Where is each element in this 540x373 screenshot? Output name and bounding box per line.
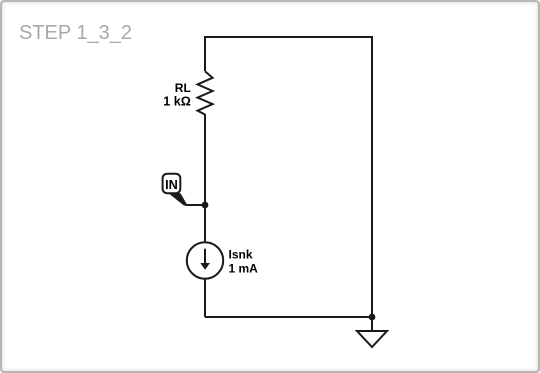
svg-text:IN: IN	[165, 178, 178, 192]
svg-text:Isnk: Isnk	[229, 248, 253, 262]
svg-text:STEP 1_3_2: STEP 1_3_2	[19, 22, 132, 44]
svg-text:RL: RL	[175, 81, 191, 95]
svg-text:1 kΩ: 1 kΩ	[163, 95, 191, 109]
svg-text:1 mA: 1 mA	[229, 262, 259, 276]
